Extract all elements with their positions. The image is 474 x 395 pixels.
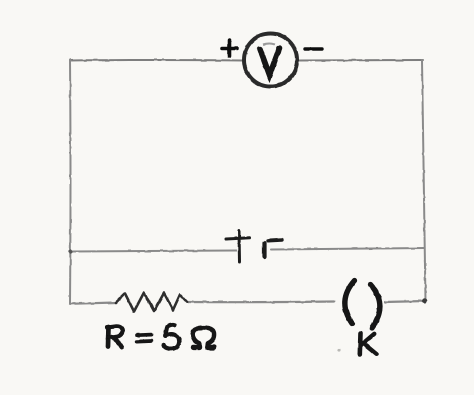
voltmeter plus label	[222, 40, 237, 56]
node junction left	[68, 249, 72, 253]
node bottom-right corner	[422, 298, 427, 303]
wire top-left segment	[70, 59, 243, 62]
label K	[360, 334, 377, 355]
wire left vertical	[69, 60, 72, 304]
label R = 5 Ω	[107, 325, 214, 349]
wire right vertical	[422, 60, 426, 301]
wire bottom-right segment	[385, 301, 426, 302]
wire middle-left segment	[70, 251, 236, 252]
wire bottom-left segment	[70, 303, 116, 304]
wire bottom-middle segment	[187, 300, 334, 303]
resistor R	[116, 293, 187, 312]
wire top-right segment	[298, 59, 423, 62]
key K	[345, 281, 380, 328]
wire middle-right segment	[271, 248, 424, 250]
voltmeter V	[244, 34, 297, 87]
battery cell	[226, 231, 282, 262]
dot before K	[337, 348, 340, 351]
voltmeter minus label	[305, 47, 322, 50]
